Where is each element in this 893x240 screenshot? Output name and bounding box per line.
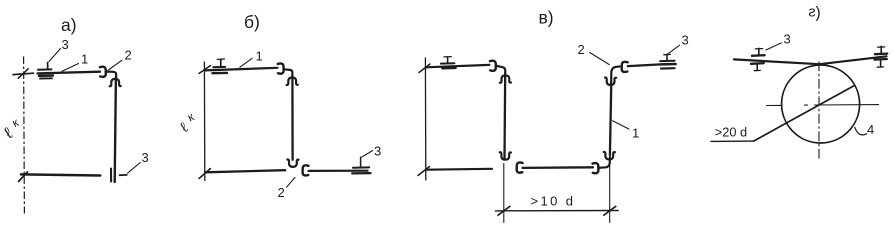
- reference centerline (left, fig a): [23, 57, 26, 213]
- tick bottom-left fig v: [418, 167, 430, 176]
- underline of >20d (fig g): [711, 140, 754, 142]
- clamp u at bottom of vertical (fig b): [287, 159, 298, 166]
- corner bend down (fig v left): [496, 66, 505, 75]
- dimension tick right (fig v): [604, 206, 616, 215]
- svg-text:1: 1: [632, 126, 639, 141]
- reference line (left, fig v): [424, 58, 426, 180]
- svg-text:2: 2: [278, 185, 285, 200]
- clamp u below top corner (fig v): [605, 78, 616, 85]
- tick top-left fig v: [419, 64, 430, 73]
- clamp omega on vertical (fig b): [287, 78, 298, 85]
- radius diagonal (fig g): [754, 86, 854, 141]
- clamp 2 open-right (top corner, fig v): [622, 62, 628, 72]
- svg-text:б): б): [244, 12, 260, 32]
- clamp open-left (top-left corner, fig v): [490, 61, 496, 71]
- top-right conductor (fig v): [628, 64, 661, 66]
- vertical conductor (fig a): [115, 77, 116, 182]
- tick cross bottom-left fig a: [19, 172, 28, 182]
- left tangent conductor (fig g): [734, 59, 820, 64]
- svg-text:>20 d: >20 d: [715, 125, 747, 140]
- horizontal centerline (fig g): [767, 104, 879, 107]
- svg-text:>10 d: >10 d: [531, 194, 576, 209]
- leader to label 1 (fig b): [240, 58, 252, 67]
- fastener (left anchor, fig g): [751, 48, 765, 70]
- fastener (top anchor, fig b): [212, 59, 227, 73]
- svg-text:4: 4: [867, 122, 874, 137]
- conductor run 1 (top horizontal, fig a): [38, 72, 101, 74]
- bottom-left conductor (fig v): [427, 168, 492, 171]
- leader to label 1 (fig v): [613, 121, 629, 129]
- leader to label 3 (fig v): [668, 45, 679, 53]
- fastener 3 bars (bottom, fig a): [111, 169, 127, 182]
- svg-text:1: 1: [256, 49, 263, 64]
- corner bend up (fig v right): [598, 158, 610, 168]
- leader to label 3 (top, fig a): [49, 49, 61, 62]
- bottom-right conductor (fig b): [309, 170, 368, 172]
- clamp open-right (bottom-left corner, fig v): [517, 162, 523, 172]
- tick top-left fig b: [199, 66, 211, 74]
- dimension tick left (fig v): [498, 206, 510, 215]
- svg-text:3: 3: [784, 32, 791, 47]
- top conductor (fig b): [205, 68, 277, 71]
- bottom conductor (fig a): [21, 174, 100, 175]
- clamp open-left (top corner, fig b): [278, 63, 284, 73]
- clamp 2 open-left (end of top run, fig a): [100, 67, 106, 77]
- svg-text:3: 3: [62, 37, 69, 52]
- fastener 3 (right anchor, fig b): [352, 157, 370, 173]
- extension line right (fig v dimension): [609, 165, 611, 223]
- vertical conductor (fig b): [291, 76, 294, 160]
- leader to label 3 (bottom, fig a): [128, 163, 141, 174]
- leader to label 2 (fig a): [108, 60, 122, 70]
- svg-text:3: 3: [682, 33, 689, 48]
- fastener (top-right anchor, fig v): [660, 54, 675, 68]
- svg-text:3: 3: [142, 150, 149, 165]
- extension line left (fig v dimension): [503, 164, 505, 223]
- svg-text:1: 1: [81, 52, 88, 67]
- bend circle 4 (fig g): [782, 65, 860, 143]
- corner bend (fig b): [284, 69, 293, 77]
- tick cross top-left fig a: [13, 69, 34, 78]
- clamp u (bottom of left vertical, fig v): [500, 152, 511, 159]
- bottom-left conductor (fig b): [205, 170, 285, 172]
- corner bend (fig a): [106, 72, 116, 79]
- clamp 2 open-right (bottom corner, fig b): [303, 165, 309, 175]
- figure label g): [808, 5, 815, 21]
- right vertical conductor (fig v): [610, 87, 611, 156]
- svg-text:к: к: [10, 115, 21, 130]
- fastener (right anchor, fig g): [874, 46, 887, 67]
- clamp omega (fig v left): [500, 75, 511, 82]
- fastener (top-left anchor, fig v): [441, 57, 456, 69]
- vertical centerline (fig g): [818, 62, 820, 159]
- left vertical conductor (fig v): [503, 74, 506, 159]
- svg-text:к: к: [185, 109, 196, 124]
- svg-text:s: s: [808, 5, 815, 21]
- top conductor (fig v): [426, 65, 489, 67]
- tick bottom-left fig b: [199, 169, 211, 179]
- svg-text:2: 2: [578, 42, 585, 57]
- reference line (left, fig b): [203, 62, 205, 181]
- clamp u (bottom of right vertical, fig v): [604, 152, 615, 159]
- leader to label 2 (fig v): [590, 53, 610, 65]
- svg-text:ℓ: ℓ: [178, 120, 191, 136]
- leader to label 3 (fig g): [766, 43, 781, 50]
- middle conductor (fig v): [523, 166, 594, 169]
- svg-text:3: 3: [374, 144, 381, 159]
- svg-text:): ): [816, 5, 821, 22]
- leader to label 4 (fig g): [855, 127, 867, 135]
- leader to label 1 (fig a): [62, 64, 79, 72]
- clamp omega on vertical (fig a): [110, 79, 121, 86]
- fastener 3 (top anchor, fig a): [38, 63, 53, 79]
- clamp open-left (bottom-right corner, fig v): [593, 163, 599, 173]
- dimension line (fig v): [495, 210, 618, 212]
- leader to label 3 (fig b): [362, 151, 373, 157]
- leader to label 2 (fig b): [287, 177, 295, 187]
- svg-text:2: 2: [125, 48, 132, 63]
- top corner bend (fig v right): [611, 67, 619, 87]
- right tangent conductor (fig g): [820, 56, 887, 64]
- svg-text:в): в): [539, 8, 554, 28]
- svg-text:а): а): [61, 15, 77, 35]
